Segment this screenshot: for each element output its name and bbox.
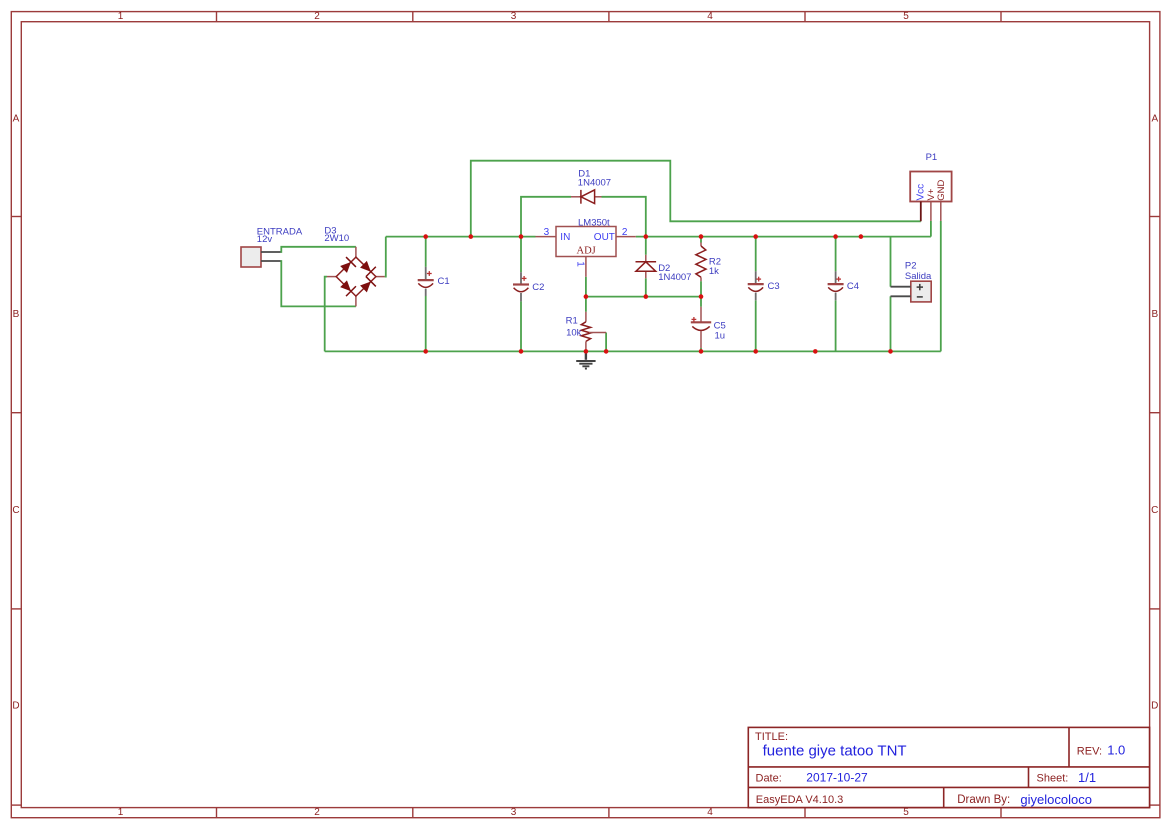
wire C3 top	[755, 237, 757, 272]
svg-text:4: 4	[707, 11, 713, 22]
svg-text:REV:: REV:	[1077, 745, 1102, 757]
label ENTRADA 12v	[257, 227, 303, 245]
wire ENTRADA pin1 to bridge AC top	[281, 247, 356, 252]
resistor R1 10k (with tap)	[581, 312, 606, 352]
wire top loop to Vcc	[471, 161, 921, 237]
P2 plus sign	[917, 284, 923, 297]
svg-text:3: 3	[544, 227, 550, 238]
svg-text:5: 5	[903, 11, 909, 22]
regulator U LM350t	[536, 227, 636, 277]
wire R2 bottom	[700, 281, 702, 296]
wire R1 tap down	[605, 333, 607, 352]
svg-text:EasyEDA V4.10.3: EasyEDA V4.10.3	[756, 794, 843, 806]
junction dots mid wire	[584, 294, 704, 299]
svg-text:5: 5	[903, 807, 909, 818]
title block divider REV	[1068, 727, 1070, 767]
plus sign C1	[427, 271, 432, 276]
bridge diode bottom-left (arrow SE)	[339, 279, 356, 296]
title block row line 2	[748, 786, 1149, 788]
svg-text:C2: C2	[532, 282, 544, 293]
svg-text:1N4007: 1N4007	[578, 177, 611, 188]
title block divider Drawn By	[943, 787, 945, 807]
svg-text:R1: R1	[566, 316, 578, 327]
label R1 10k	[566, 316, 582, 339]
wire C5 top	[700, 297, 702, 307]
bridge diode top-right (arrow SE)	[359, 259, 376, 276]
wire R1 top	[585, 297, 587, 312]
svg-text:Sheet:: Sheet:	[1037, 773, 1069, 785]
svg-text:10k: 10k	[566, 327, 582, 338]
P2 minus sign	[917, 296, 923, 298]
junction dots top rail	[423, 234, 863, 239]
wire ADJ mid horizontal	[586, 296, 701, 298]
svg-text:1k: 1k	[709, 266, 719, 277]
svg-text:OUT: OUT	[594, 232, 615, 243]
svg-text:12v: 12v	[257, 234, 273, 245]
capacitor C1	[418, 267, 434, 296]
svg-text:C: C	[1151, 505, 1158, 516]
title block divider Sheet	[1028, 767, 1030, 788]
wire bridge plus riser	[385, 237, 386, 277]
wire D2 top	[645, 237, 647, 255]
top ruler numbers 1-5	[118, 11, 910, 22]
right ruler ticks	[1150, 217, 1160, 806]
label P2 Salida	[905, 261, 932, 283]
resistor R2 1k	[696, 243, 706, 282]
P1 pin 3 GND stub	[940, 202, 942, 221]
wire P2 plus riser	[890, 237, 892, 287]
bottom ruler ticks	[217, 808, 1002, 818]
svg-text:1: 1	[575, 261, 586, 267]
label D3 2W10	[324, 226, 349, 245]
wire ENTRADA pin2 to bridge AC bottom	[281, 261, 356, 306]
junction dots bottom rail	[423, 349, 892, 354]
label C5 1u	[714, 321, 726, 342]
bridge diode top-left (arrow NE)	[339, 257, 356, 274]
wire C1 top	[425, 237, 427, 267]
bridge diode bottom-right (arrow NE)	[359, 277, 376, 294]
plus sign C2	[522, 276, 527, 281]
pin 2 OUT stub	[616, 236, 636, 238]
svg-text:A: A	[1151, 114, 1158, 125]
wire D1 loop left	[521, 197, 571, 237]
svg-text:3: 3	[511, 807, 517, 818]
svg-text:giyelocoloco: giyelocoloco	[1020, 792, 1092, 807]
svg-text:1u: 1u	[715, 331, 726, 342]
wire ground rail bottom	[325, 350, 941, 352]
wire C5 bottom	[700, 348, 702, 351]
bridge pin stubs	[355, 247, 357, 257]
svg-text:2017-10-27: 2017-10-27	[806, 771, 868, 785]
wire C2 bottom	[520, 301, 522, 351]
connector P1 (Vcc / V+ / GND)	[910, 172, 951, 222]
diode D2 1N4007	[636, 255, 657, 278]
ground symbol	[576, 351, 595, 368]
svg-text:2: 2	[314, 11, 320, 22]
plus sign C3	[756, 277, 761, 282]
R1 tap arm	[589, 332, 606, 334]
bottom ruler numbers 1-5	[118, 807, 910, 818]
wire main rail left (input side)	[386, 236, 536, 238]
P1 pin 1 Vcc stub	[920, 202, 922, 222]
svg-text:GND: GND	[936, 180, 947, 201]
wire D2 bottom	[645, 278, 647, 296]
svg-text:Date:: Date:	[756, 773, 782, 785]
label R2 1k	[709, 257, 721, 278]
capacitor C2	[513, 272, 529, 301]
top ruler ticks	[217, 12, 1002, 22]
svg-text:2: 2	[622, 227, 628, 238]
svg-text:P2: P2	[905, 261, 917, 272]
connector P2 Salida	[891, 281, 932, 302]
svg-text:C4: C4	[847, 281, 859, 292]
capacitor C4	[828, 271, 844, 300]
svg-text:D: D	[12, 701, 19, 712]
plus sign C5	[692, 317, 697, 322]
svg-text:C: C	[12, 505, 19, 516]
label D2 1N4007	[658, 263, 691, 283]
wire ADJ down	[585, 277, 587, 297]
title block box	[748, 727, 1149, 807]
pin 1 ADJ stub	[585, 257, 587, 277]
title block row line 1	[748, 766, 1149, 768]
diode D1 1N4007	[571, 190, 602, 204]
svg-text:1/1: 1/1	[1078, 770, 1096, 785]
svg-text:A: A	[13, 114, 20, 125]
left ruler letters A-D	[12, 114, 19, 712]
anode triangle	[636, 262, 656, 272]
plus sign C4	[836, 277, 841, 282]
wire main rail right (output side)	[636, 236, 931, 238]
left ruler ticks	[11, 217, 21, 806]
wire V+ riser	[930, 221, 932, 237]
svg-text:Drawn By:: Drawn By:	[957, 794, 1010, 806]
svg-text:D: D	[1151, 701, 1158, 712]
svg-text:Salida: Salida	[905, 271, 932, 282]
capacitor C3	[748, 271, 764, 300]
bridge diamond outline	[336, 257, 376, 296]
anode triangle	[581, 190, 595, 204]
right ruler letters A-D	[1151, 114, 1158, 712]
wire C4 top	[835, 237, 837, 272]
svg-text:1N4007: 1N4007	[658, 272, 691, 283]
svg-text:B: B	[1151, 309, 1158, 320]
pin 3 IN stub	[536, 236, 557, 238]
wire C1 bottom	[425, 296, 427, 351]
svg-text:4: 4	[707, 807, 713, 818]
svg-text:1: 1	[118, 11, 124, 22]
svg-text:C3: C3	[768, 281, 780, 292]
svg-text:1.0: 1.0	[1107, 743, 1125, 758]
wire R2 top	[700, 237, 702, 243]
wire GND riser to P1	[940, 221, 942, 352]
svg-text:B: B	[13, 309, 20, 320]
wire P2 minus down	[890, 296, 892, 351]
wire C4 bottom	[835, 300, 837, 351]
svg-text:fuente giye tatoo TNT: fuente giye tatoo TNT	[763, 742, 907, 759]
svg-text:IN: IN	[560, 232, 570, 243]
capacitor C5 1u	[691, 307, 711, 348]
svg-text:ADJ: ADJ	[577, 245, 596, 256]
P1 pin 2 V+ stub	[930, 202, 932, 221]
wire D1 loop right	[602, 197, 646, 237]
svg-text:LM350t: LM350t	[578, 217, 610, 228]
wire bridge minus to ground rail	[325, 277, 327, 352]
bridge rectifier D3 2W10	[327, 247, 385, 307]
wire C3 bottom	[755, 300, 757, 351]
label D1 1N4007	[578, 169, 611, 189]
svg-text:3: 3	[511, 11, 517, 22]
wire C2 top	[520, 237, 522, 273]
svg-text:P1: P1	[926, 152, 938, 163]
svg-text:2W10: 2W10	[324, 233, 349, 244]
cathode bar	[636, 261, 657, 263]
cathode bar	[580, 190, 582, 204]
connector ENTRADA (12v input)	[241, 247, 281, 267]
svg-text:C1: C1	[438, 276, 450, 287]
svg-text:1: 1	[118, 807, 124, 818]
svg-text:2: 2	[314, 807, 320, 818]
